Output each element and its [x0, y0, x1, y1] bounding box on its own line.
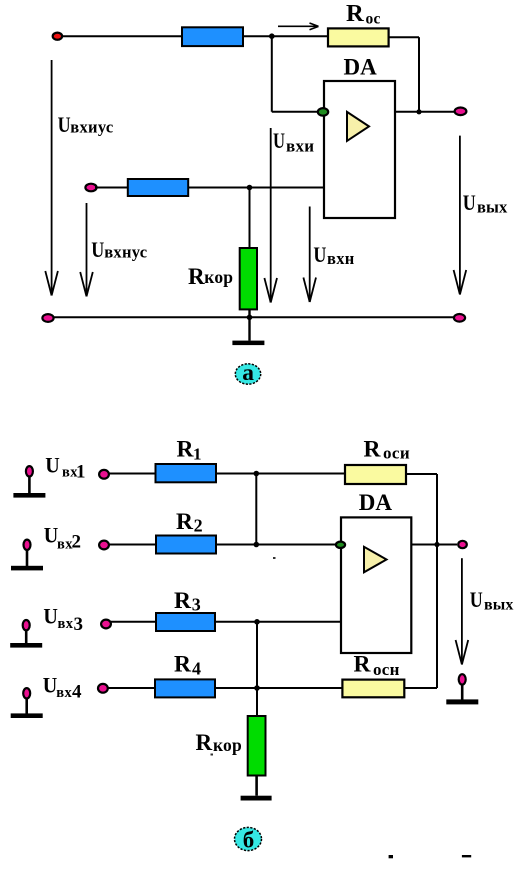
- node input4 b (magenta): [98, 684, 108, 693]
- svg-text:вхиус: вхиус: [70, 118, 113, 137]
- svg-text:оси: оси: [383, 444, 410, 463]
- arrow Uvhius: [45, 60, 58, 296]
- wire Roc to feedback corner: [389, 37, 419, 112]
- node junction row3: [254, 619, 260, 625]
- svg-text:R: R: [174, 588, 192, 614]
- label R2: [176, 509, 203, 535]
- svg-text:R: R: [364, 436, 382, 462]
- svg-text:а: а: [242, 360, 254, 386]
- node input2 (magenta): [85, 184, 96, 192]
- label circle a: [235, 360, 260, 386]
- svg-text:U: U: [470, 587, 483, 612]
- svg-text:R: R: [176, 509, 194, 535]
- label R1: [177, 436, 202, 463]
- label Roc: [346, 0, 381, 27]
- node inverting input (green): [318, 108, 328, 116]
- node output b (magenta): [458, 541, 467, 548]
- svg-text:ос: ос: [366, 10, 381, 27]
- op-amp U2 body: [341, 517, 411, 653]
- svg-text:DA: DA: [359, 490, 393, 515]
- svg-text:вхи: вхи: [286, 137, 314, 156]
- label Rosn: [354, 652, 400, 680]
- svg-text:1: 1: [193, 444, 202, 463]
- label R3: [174, 588, 201, 614]
- svg-text:вхн: вхн: [327, 249, 355, 268]
- svg-text:вх: вх: [56, 685, 72, 701]
- svg-text:U: U: [43, 604, 58, 629]
- svg-text:вхнус: вхнус: [104, 243, 147, 262]
- label Rkor b: [196, 730, 243, 755]
- resistor R4: [155, 679, 215, 697]
- label Uvh2: [44, 522, 81, 552]
- wire bottom rail: [48, 316, 459, 318]
- svg-text:U: U: [58, 112, 71, 137]
- svg-text:U: U: [43, 673, 58, 698]
- node junction row1: [253, 471, 259, 477]
- op-amp triangle b: [364, 547, 387, 573]
- wire row3: [110, 621, 341, 623]
- node inverting input b (green): [336, 542, 345, 548]
- wire Rkor b to ground: [255, 776, 258, 796]
- svg-text:1: 1: [76, 461, 86, 482]
- resistor input2 (blue): [128, 179, 188, 196]
- svg-text:U: U: [91, 237, 104, 262]
- wire Rosn to feedback: [404, 687, 437, 689]
- terminal output b: [446, 674, 478, 704]
- wire Rosi to feedback: [406, 474, 437, 688]
- svg-text:U: U: [463, 190, 476, 215]
- current arrow: [278, 23, 319, 30]
- label DA b: [359, 490, 393, 515]
- label Uvhnus: [91, 237, 147, 262]
- arrow Uvhnus: [80, 203, 93, 296]
- wire bus1: [255, 474, 257, 545]
- node input1 (red): [53, 33, 62, 40]
- resistor R2: [156, 536, 216, 554]
- label Uvyh b: [470, 587, 514, 614]
- node bottom-right (magenta): [454, 314, 465, 322]
- resistor Rosn (yellow): [342, 680, 404, 698]
- resistor R1: [156, 464, 217, 482]
- resistor Rkor (green): [240, 248, 257, 309]
- wire row2: [108, 544, 336, 546]
- label circle b: [235, 827, 262, 852]
- svg-text:вых: вых: [484, 597, 513, 614]
- node output (magenta): [455, 108, 467, 116]
- terminal input4: [11, 688, 43, 718]
- svg-text:2: 2: [72, 532, 82, 553]
- svg-text:3: 3: [192, 594, 201, 614]
- wire row1: [108, 473, 345, 475]
- svg-text:б: б: [243, 827, 255, 852]
- resistor Rkor b (green): [248, 716, 266, 776]
- label Uvhn: [313, 242, 354, 268]
- svg-text:кор: кор: [204, 267, 233, 287]
- svg-text:U: U: [313, 242, 326, 267]
- terminal input2: [11, 540, 43, 571]
- wire bus2: [256, 622, 258, 716]
- node junction J2: [247, 185, 253, 191]
- node junction row2: [253, 542, 259, 548]
- wire Rkor to ground: [248, 309, 250, 340]
- ground b: [241, 796, 272, 801]
- svg-text:осн: осн: [373, 660, 400, 679]
- wire inverting input: [272, 36, 319, 112]
- svg-text:вых: вых: [477, 198, 508, 217]
- label Uvh4: [43, 673, 82, 703]
- wire output: [395, 111, 455, 113]
- svg-text:R: R: [354, 652, 372, 678]
- op-amp triangle: [347, 112, 369, 141]
- resistor R3: [156, 613, 215, 631]
- arrow Uvyh (a): [454, 136, 467, 295]
- label Uvh1: [45, 453, 85, 483]
- node output junction b: [434, 542, 439, 547]
- label Rkor (a): [188, 264, 233, 289]
- svg-text:2: 2: [194, 516, 203, 536]
- node output junction: [416, 109, 421, 114]
- node input1 b (magenta): [99, 470, 109, 479]
- node input3 b (magenta): [101, 620, 111, 629]
- node bottom-left (magenta): [42, 314, 53, 322]
- ground (a): [232, 341, 264, 346]
- label R4: [174, 651, 201, 678]
- resistor input1 (blue): [182, 27, 243, 46]
- arrow Uvhn: [303, 207, 316, 303]
- svg-text:U: U: [273, 128, 285, 153]
- label Uvhius: [58, 112, 114, 137]
- svg-text:DA: DA: [344, 54, 378, 79]
- svg-text:4: 4: [72, 682, 82, 703]
- label DA: [344, 54, 378, 79]
- stray mark dot: [389, 855, 393, 858]
- op-amp U1 body: [324, 81, 395, 218]
- label Uvh3: [43, 604, 83, 635]
- node input2 b (magenta): [99, 541, 109, 550]
- node junction J1: [269, 33, 275, 39]
- wire J2 to Rkor: [249, 188, 251, 251]
- label Uvhi: [273, 128, 314, 156]
- svg-text:4: 4: [192, 659, 201, 679]
- terminal input1: [13, 466, 45, 498]
- svg-text:кор: кор: [213, 735, 242, 755]
- label Uvyh (a): [463, 190, 508, 217]
- svg-text:R: R: [174, 651, 192, 677]
- node junction row4: [254, 685, 260, 691]
- wire top input: [62, 35, 330, 37]
- svg-text:R: R: [346, 0, 364, 27]
- wire output b: [411, 544, 457, 546]
- arrow Uvyh b: [456, 558, 469, 664]
- svg-text:вх: вх: [58, 616, 74, 632]
- svg-text:U: U: [45, 453, 60, 478]
- svg-text:R: R: [177, 436, 195, 462]
- svg-text:3: 3: [74, 614, 84, 635]
- wire input2: [95, 187, 324, 189]
- svg-text:R: R: [188, 264, 205, 289]
- terminal input3: [10, 620, 42, 648]
- wire row4: [107, 687, 342, 689]
- resistor Rosi (yellow): [345, 465, 406, 484]
- stray speck 1: [273, 557, 276, 559]
- label Rosi: [364, 436, 411, 462]
- resistor Roc (yellow): [328, 28, 389, 46]
- node junction bottom: [247, 315, 253, 321]
- svg-text:R: R: [196, 730, 213, 755]
- stray mark dash: [462, 855, 471, 857]
- arrow Uvhi: [264, 128, 277, 303]
- stray speck 2: [211, 754, 214, 756]
